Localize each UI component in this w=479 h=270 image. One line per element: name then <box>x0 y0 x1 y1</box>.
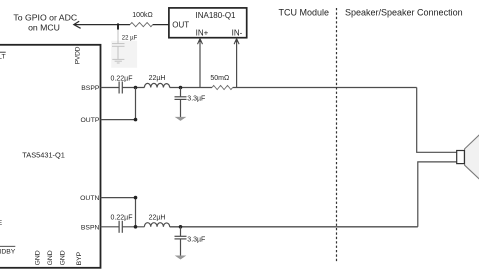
svg-text:GND: GND <box>47 250 54 265</box>
node dot OUTP corner <box>134 118 138 122</box>
junction tick at 22uF tap <box>117 23 119 29</box>
svg-text:IN+: IN+ <box>196 28 209 37</box>
svg-text:TAS5431-Q1: TAS5431-Q1 <box>22 151 65 160</box>
svg-text:22µH: 22µH <box>149 75 166 82</box>
pin FAULT (clipped at left edge) <box>0 52 6 60</box>
highlight behind 22uF capacitor <box>111 41 137 68</box>
svg-text:GND: GND <box>59 250 66 265</box>
svg-text:GND: GND <box>34 250 41 265</box>
resistor R2 50mOhm shunt <box>212 85 233 89</box>
svg-text:OUTP: OUTP <box>81 117 100 124</box>
resistor R1 100k <box>130 23 153 27</box>
svg-text:22 µF: 22 µF <box>122 35 138 41</box>
boundary dashed line TCU / Speaker <box>336 8 338 263</box>
capacitor 22uF (greyed) <box>112 30 138 60</box>
wire BSPP pin stub <box>101 87 120 89</box>
wire up to speaker (-) <box>418 162 457 227</box>
svg-text:on MCU: on MCU <box>28 23 60 33</box>
wire inductor to speaker corner <box>170 226 418 228</box>
svg-text:BSPP: BSPP <box>81 85 100 92</box>
speaker LS1 magnet box <box>457 151 465 164</box>
inductor L2 22uH <box>144 223 169 227</box>
svg-text:To GPIO or ADC: To GPIO or ADC <box>13 13 77 23</box>
node dot BSPP/OUTP <box>134 86 138 90</box>
wire cap to node <box>122 226 144 228</box>
svg-text:OUT: OUT <box>172 21 189 30</box>
wire OUTN pin <box>101 198 136 227</box>
IN- sense line <box>234 39 239 88</box>
wire OUTP pin <box>101 88 136 120</box>
ground (3.3uF BSPN, triangle) <box>175 256 187 260</box>
svg-text:ANDBY: ANDBY <box>0 248 16 255</box>
svg-text:PVDD: PVDD <box>74 46 81 64</box>
IN+ sense line <box>198 39 203 88</box>
svg-text:OUTN: OUTN <box>80 195 99 202</box>
wire resistor to INA OUT <box>153 24 169 26</box>
ground (3.3uF BSPP, triangle) <box>175 117 187 121</box>
svg-text:100kΩ: 100kΩ <box>132 12 152 19</box>
pin STANDBY (clipped at left edge) <box>0 246 16 255</box>
node dot BSPN/OUTN <box>134 225 138 229</box>
node dot 3.3uF tap <box>179 86 183 90</box>
svg-text:INA180-Q1: INA180-Q1 <box>195 11 236 20</box>
wire inductor to node <box>170 87 212 89</box>
node dot 3.3uF tap <box>179 225 183 229</box>
svg-text:22µH: 22µH <box>149 215 166 222</box>
capacitor 3.3uF (BSPN side) <box>175 227 206 256</box>
arrowhead to MCU <box>74 21 81 28</box>
svg-text:TCU Module: TCU Module <box>278 8 329 18</box>
svg-text:0.22µF: 0.22µF <box>111 215 133 222</box>
capacitor 3.3uF (BSPP side) <box>175 88 206 118</box>
capacitor 0.22uF (BSPN bootstrap) <box>111 215 133 233</box>
capacitor 0.22uF (BSPP bootstrap) <box>111 75 133 93</box>
svg-text:3.3µF: 3.3µF <box>187 236 205 243</box>
svg-text:Speaker/Speaker Connection: Speaker/Speaker Connection <box>345 8 463 18</box>
svg-text:ULT: ULT <box>0 54 6 61</box>
wire arrow to resistor R1 <box>75 24 130 26</box>
node dot OUTN corner <box>134 196 138 200</box>
svg-text:50mΩ: 50mΩ <box>210 75 229 82</box>
wire down to speaker (+) <box>417 88 457 153</box>
ground (22uF, 3-bar, greyed) <box>112 59 124 63</box>
speaker LS1 cone <box>465 129 479 186</box>
wire BSPN pin stub <box>101 226 120 228</box>
op-amp U2 INA180-Q1 <box>169 8 247 38</box>
inductor L1 22uH <box>144 83 169 87</box>
svg-text:IN-: IN- <box>232 28 243 37</box>
svg-text:BYP: BYP <box>76 251 83 265</box>
IC U1 TAS5431-Q1 body <box>0 45 101 268</box>
wire cap to node <box>122 87 144 89</box>
svg-text:BSPN: BSPN <box>81 224 100 231</box>
wire shunt to speaker corner <box>233 87 417 89</box>
svg-text:3.3µF: 3.3µF <box>187 96 205 103</box>
svg-text:0.22µF: 0.22µF <box>111 75 133 82</box>
